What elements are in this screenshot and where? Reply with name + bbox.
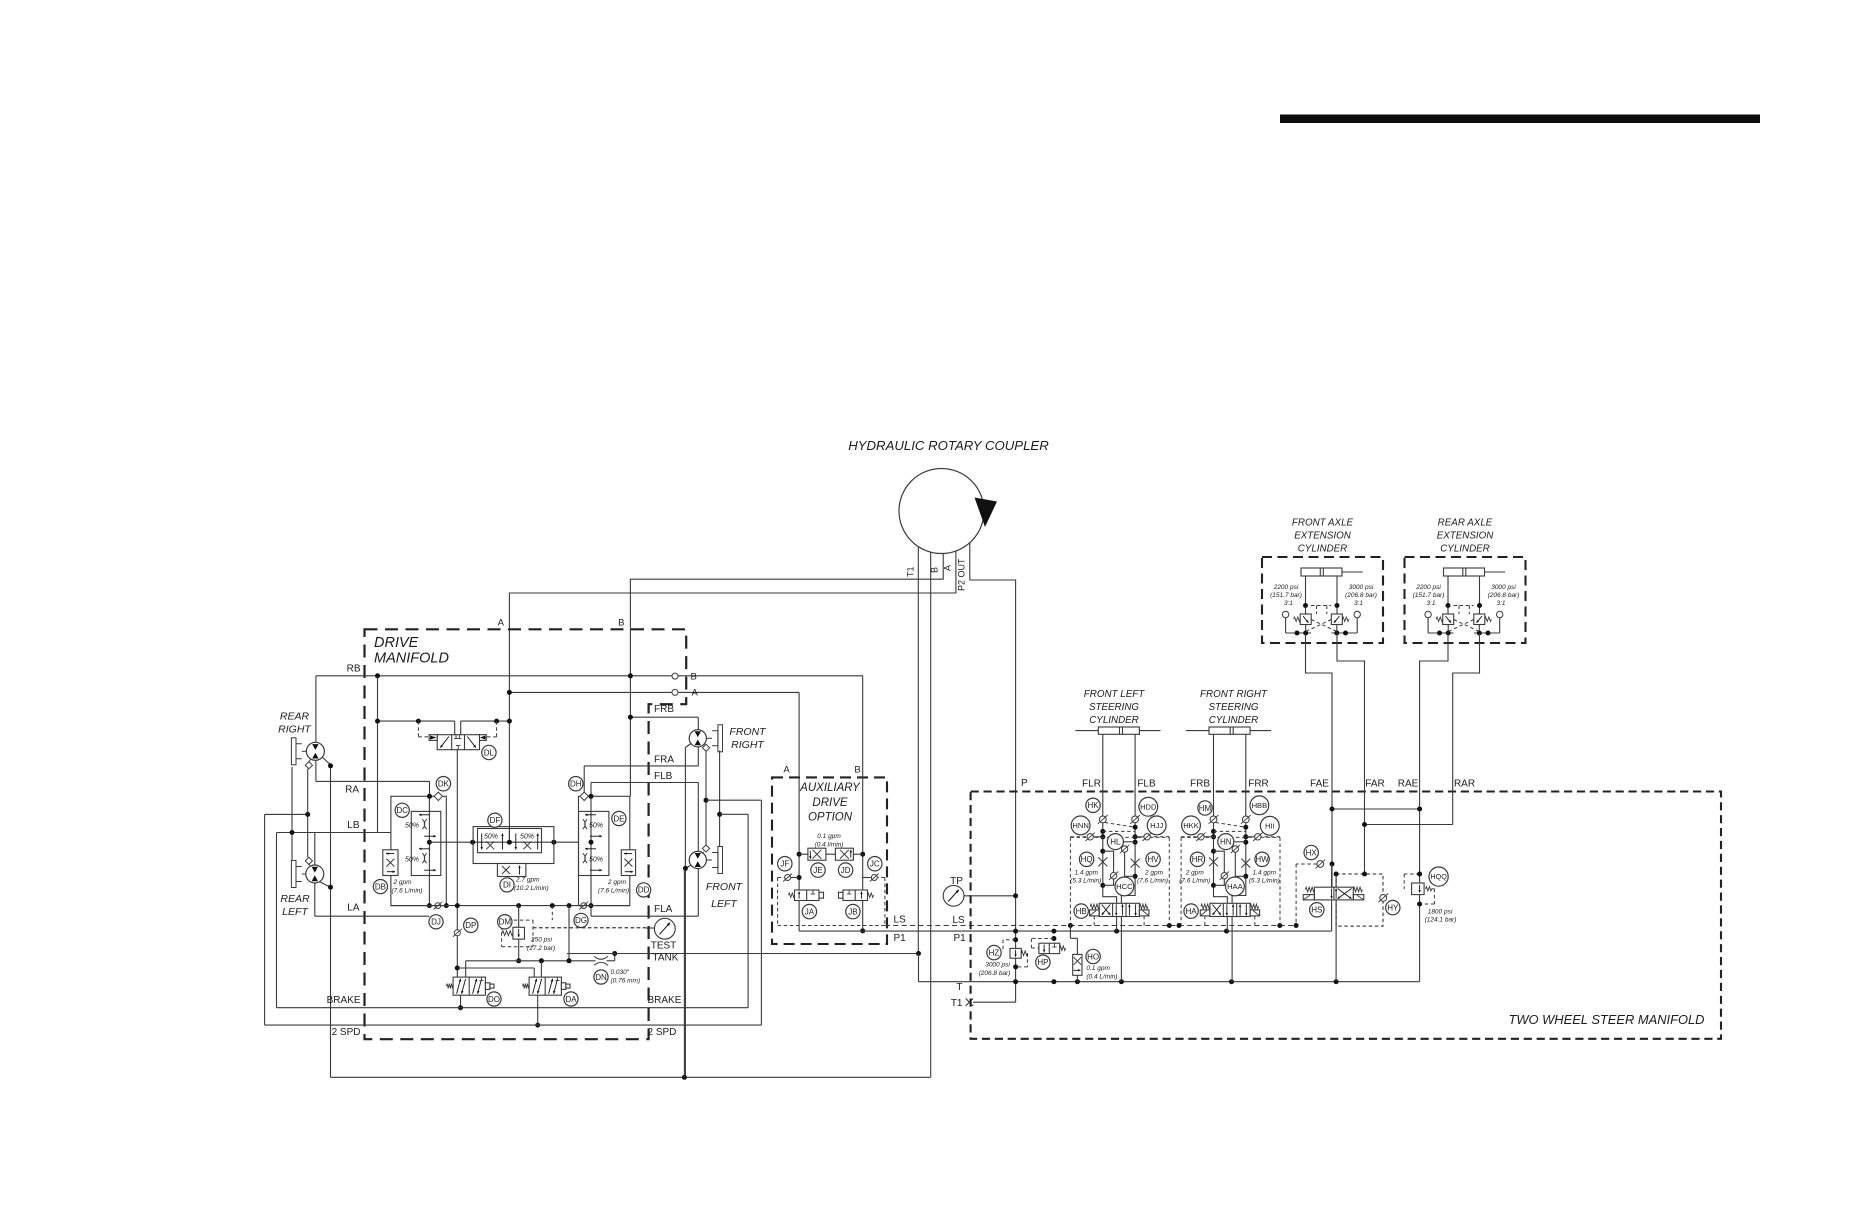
svg-text:FRONT LEFT: FRONT LEFT: [1084, 689, 1145, 700]
svg-text:(0.4 l/min): (0.4 l/min): [815, 842, 844, 849]
svg-text:TEST: TEST: [651, 941, 677, 952]
svg-text:RIGHT: RIGHT: [731, 739, 765, 751]
svg-text:HW: HW: [1255, 855, 1269, 864]
svg-text:FRB: FRB: [1190, 779, 1210, 790]
svg-text:B: B: [930, 567, 940, 573]
svg-text:TWO WHEEL STEER MANIFOLD: TWO WHEEL STEER MANIFOLD: [1508, 1012, 1704, 1027]
svg-text:DA: DA: [565, 995, 577, 1004]
svg-text:(0.4 L/min): (0.4 L/min): [1086, 974, 1117, 981]
svg-text:DK: DK: [438, 780, 450, 789]
svg-text:FAE: FAE: [1310, 779, 1329, 790]
svg-text:(151.7 bar): (151.7 bar): [1270, 592, 1302, 599]
svg-text:DRIVE: DRIVE: [812, 797, 847, 809]
svg-text:(17.2 bar): (17.2 bar): [527, 945, 555, 952]
svg-text:FRONT: FRONT: [706, 881, 744, 893]
svg-text:FRONT: FRONT: [729, 726, 767, 738]
svg-text:RAE: RAE: [1398, 779, 1419, 790]
svg-text:DF: DF: [490, 816, 501, 825]
svg-text:DP: DP: [465, 921, 476, 930]
svg-text:T: T: [956, 982, 962, 993]
svg-text:HX: HX: [1306, 848, 1318, 857]
svg-text:50%: 50%: [520, 834, 534, 841]
svg-text:HA: HA: [1186, 907, 1198, 916]
svg-text:3:1: 3:1: [1496, 600, 1505, 607]
svg-text:2 SPD: 2 SPD: [332, 1027, 361, 1038]
svg-text:(124.1 bar): (124.1 bar): [1425, 917, 1457, 924]
svg-text:REAR: REAR: [280, 711, 310, 723]
svg-text:STEERING: STEERING: [1208, 702, 1258, 713]
svg-text:HR: HR: [1192, 855, 1204, 864]
svg-text:DH: DH: [570, 780, 582, 789]
svg-text:A: A: [943, 565, 953, 571]
svg-text:2 gpm: 2 gpm: [1144, 870, 1164, 877]
svg-text:A: A: [783, 765, 790, 776]
svg-text:HB: HB: [1076, 907, 1087, 916]
svg-text:FRB: FRB: [654, 704, 674, 715]
svg-text:AUXILIARY: AUXILIARY: [799, 782, 861, 794]
svg-text:50%: 50%: [589, 822, 603, 829]
svg-text:HJJ: HJJ: [1150, 821, 1163, 830]
svg-text:DO: DO: [488, 995, 500, 1004]
svg-text:HII: HII: [1265, 821, 1275, 830]
svg-text:FLB: FLB: [1137, 779, 1156, 790]
svg-text:JE: JE: [813, 866, 822, 875]
svg-text:DC: DC: [396, 806, 408, 815]
svg-text:HQ: HQ: [1081, 855, 1093, 864]
svg-text:2 SPD: 2 SPD: [648, 1027, 677, 1038]
svg-text:HP: HP: [1037, 958, 1048, 967]
svg-text:(5.3 L/min): (5.3 L/min): [1249, 878, 1280, 885]
svg-text:3:1: 3:1: [1354, 600, 1363, 607]
svg-text:MANIFOLD: MANIFOLD: [374, 651, 449, 667]
svg-text:0.1 gpm: 0.1 gpm: [1086, 965, 1110, 972]
svg-text:DRIVE: DRIVE: [374, 635, 419, 651]
svg-text:HL: HL: [1110, 837, 1121, 846]
svg-text:FAR: FAR: [1365, 779, 1384, 790]
svg-text:DJ: DJ: [431, 918, 441, 927]
svg-text:(10.2 L/min): (10.2 L/min): [514, 885, 549, 892]
svg-text:P1: P1: [894, 933, 907, 944]
svg-text:3:1: 3:1: [1426, 600, 1435, 607]
svg-text:0.1 gpm: 0.1 gpm: [817, 833, 841, 840]
svg-text:JD: JD: [841, 866, 851, 875]
svg-text:(7.6 L/min): (7.6 L/min): [392, 888, 423, 895]
svg-text:(7.6 L/min): (7.6 L/min): [1137, 878, 1168, 885]
svg-text:HO: HO: [1087, 952, 1099, 961]
svg-text:LB: LB: [347, 820, 360, 831]
svg-text:B: B: [618, 618, 624, 629]
svg-text:(5.3 L/min): (5.3 L/min): [1070, 878, 1101, 885]
svg-text:HY: HY: [1387, 903, 1399, 912]
svg-text:3000 psi: 3000 psi: [1491, 584, 1516, 591]
svg-text:DE: DE: [613, 814, 624, 823]
svg-text:LEFT: LEFT: [711, 898, 738, 910]
svg-text:EXTENSION: EXTENSION: [1294, 531, 1352, 542]
svg-text:HM: HM: [1199, 804, 1212, 813]
svg-text:(0.76 mm): (0.76 mm): [611, 978, 641, 985]
svg-text:50%: 50%: [405, 822, 419, 829]
svg-text:(206.8 bar): (206.8 bar): [1345, 592, 1377, 599]
svg-text:B: B: [854, 765, 860, 776]
svg-text:JA: JA: [805, 907, 815, 916]
svg-text:50%: 50%: [589, 856, 603, 863]
svg-text:DL: DL: [484, 748, 495, 757]
svg-text:(7.6 L/min): (7.6 L/min): [598, 888, 629, 895]
svg-text:250 psi: 250 psi: [530, 937, 553, 944]
svg-text:FLR: FLR: [1082, 779, 1101, 790]
svg-text:CYLINDER: CYLINDER: [1209, 715, 1259, 726]
svg-text:3000 psi: 3000 psi: [1349, 584, 1374, 591]
svg-text:2200 psi: 2200 psi: [1273, 584, 1299, 591]
svg-text:HYDRAULIC ROTARY COUPLER: HYDRAULIC ROTARY COUPLER: [848, 438, 1049, 453]
svg-text:CYLINDER: CYLINDER: [1298, 544, 1348, 555]
svg-text:P2 OUT: P2 OUT: [957, 558, 967, 591]
svg-text:HV: HV: [1148, 855, 1160, 864]
svg-text:FRR: FRR: [1248, 779, 1269, 790]
svg-text:P: P: [1021, 778, 1028, 789]
svg-text:LS: LS: [894, 915, 907, 926]
svg-text:0.030″: 0.030″: [611, 969, 630, 976]
svg-text:REAR AXLE: REAR AXLE: [1438, 518, 1493, 529]
svg-text:2.7 gpm: 2.7 gpm: [515, 877, 540, 884]
svg-text:50%: 50%: [405, 856, 419, 863]
svg-text:DG: DG: [575, 916, 587, 925]
svg-text:A: A: [498, 618, 505, 629]
svg-text:HS: HS: [1311, 906, 1322, 915]
svg-text:TP: TP: [950, 876, 963, 887]
svg-text:FRONT AXLE: FRONT AXLE: [1292, 518, 1354, 529]
svg-text:HDD: HDD: [1140, 802, 1157, 811]
svg-text:FRA: FRA: [654, 754, 674, 765]
svg-text:TANK: TANK: [653, 953, 679, 964]
svg-text:CYLINDER: CYLINDER: [1440, 544, 1490, 555]
svg-text:LS: LS: [953, 915, 966, 926]
svg-text:OPTION: OPTION: [808, 812, 853, 824]
svg-text:2 gpm: 2 gpm: [1185, 870, 1205, 877]
svg-text:(7.6 L/min): (7.6 L/min): [1179, 878, 1210, 885]
svg-text:EXTENSION: EXTENSION: [1437, 531, 1495, 542]
svg-text:DB: DB: [375, 882, 386, 891]
svg-text:DI: DI: [503, 881, 511, 890]
svg-text:1800 psi: 1800 psi: [1428, 909, 1453, 916]
svg-text:RB: RB: [347, 664, 361, 675]
svg-text:HK: HK: [1087, 801, 1099, 810]
svg-text:REAR: REAR: [280, 893, 310, 905]
svg-text:HQQ: HQQ: [1430, 872, 1447, 881]
svg-text:FLA: FLA: [654, 904, 673, 915]
svg-text:JF: JF: [780, 860, 789, 869]
svg-text:DM: DM: [499, 918, 512, 927]
svg-text:A: A: [692, 688, 699, 699]
svg-text:HN: HN: [1220, 837, 1232, 846]
svg-text:1.4 gpm: 1.4 gpm: [1253, 870, 1277, 877]
svg-text:BRAKE: BRAKE: [648, 995, 682, 1006]
svg-text:FRONT RIGHT: FRONT RIGHT: [1200, 689, 1268, 700]
svg-text:LA: LA: [347, 903, 360, 914]
svg-text:CYLINDER: CYLINDER: [1089, 715, 1139, 726]
svg-text:JC: JC: [870, 860, 880, 869]
svg-text:FLB: FLB: [654, 771, 673, 782]
svg-text:(151.7 bar): (151.7 bar): [1413, 592, 1445, 599]
svg-text:1.4 gpm: 1.4 gpm: [1075, 870, 1099, 877]
svg-text:HBB: HBB: [1252, 801, 1268, 810]
svg-text:(206.8 bar): (206.8 bar): [979, 970, 1011, 977]
svg-text:(206.8 bar): (206.8 bar): [1488, 592, 1520, 599]
svg-text:BRAKE: BRAKE: [327, 995, 361, 1006]
svg-text:2200 psi: 2200 psi: [1415, 584, 1441, 591]
svg-text:RAR: RAR: [1454, 779, 1475, 790]
svg-text:3:1: 3:1: [1284, 600, 1293, 607]
svg-text:DD: DD: [638, 886, 650, 895]
svg-text:2 gpm: 2 gpm: [393, 879, 413, 886]
svg-text:HAA: HAA: [1227, 882, 1244, 891]
svg-text:HNN: HNN: [1072, 821, 1088, 830]
svg-text:T1: T1: [951, 998, 963, 1009]
svg-text:JB: JB: [848, 907, 857, 916]
svg-text:DN: DN: [595, 973, 607, 982]
svg-text:RIGHT: RIGHT: [278, 724, 312, 736]
svg-text:RA: RA: [345, 785, 359, 796]
svg-text:P1: P1: [954, 933, 967, 944]
svg-text:HKK: HKK: [1183, 821, 1199, 830]
svg-text:2 gpm: 2 gpm: [607, 879, 627, 886]
svg-text:HZ: HZ: [989, 948, 1000, 957]
svg-text:HCC: HCC: [1116, 882, 1133, 891]
svg-text:B: B: [691, 672, 697, 683]
svg-text:3000 psi: 3000 psi: [985, 962, 1010, 969]
svg-text:STEERING: STEERING: [1089, 702, 1139, 713]
svg-text:LEFT: LEFT: [282, 906, 309, 918]
svg-text:T1: T1: [906, 566, 916, 577]
svg-text:50%: 50%: [484, 834, 498, 841]
